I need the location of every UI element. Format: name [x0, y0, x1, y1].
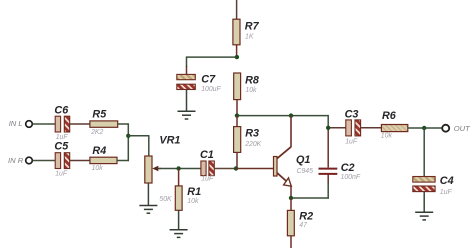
node junction wiper/R1/C1 — [176, 166, 180, 170]
terminal OUT — [442, 124, 471, 133]
svg-text:C4: C4 — [440, 175, 454, 187]
wire IN L to C6 — [33, 123, 56, 125]
svg-text:R1: R1 — [187, 186, 201, 198]
wire C1 to base junction — [214, 168, 236, 170]
terminal IN R — [8, 156, 32, 165]
resistor R5 — [90, 109, 118, 136]
node junction R7/R8/C7 — [235, 55, 239, 59]
svg-text:R7: R7 — [245, 21, 260, 33]
resistor R8 — [234, 73, 259, 116]
wire junction under R7 to C7 branch — [187, 56, 238, 67]
svg-text:IN R: IN R — [8, 156, 24, 165]
svg-text:47: 47 — [299, 222, 308, 229]
wire C6 to R5 — [70, 123, 91, 125]
svg-text:220K: 220K — [244, 141, 261, 148]
wire IN R to C5 — [33, 160, 56, 162]
resistor R6 — [381, 110, 408, 140]
potentiometer VR1 — [145, 135, 181, 204]
wire C3 branch — [328, 127, 346, 129]
ground under C7 — [178, 90, 196, 120]
node junction emitter/R2/C2 — [289, 196, 293, 200]
node junction R6/C4/OUT — [422, 126, 426, 130]
svg-text:R2: R2 — [299, 210, 313, 222]
capacitor C7 pin — [186, 66, 188, 75]
node junction R8/R3/rail — [235, 113, 239, 117]
svg-text:C3: C3 — [345, 109, 359, 121]
svg-text:100nF: 100nF — [341, 174, 361, 181]
resistor R2 — [287, 198, 313, 248]
svg-text:1K: 1K — [245, 34, 254, 41]
wire R6 to OUT — [408, 127, 442, 129]
resistor R1 — [175, 169, 201, 211]
svg-text:10k: 10k — [245, 87, 257, 94]
resistor R3 — [234, 116, 262, 169]
capacitor C4 — [413, 175, 454, 196]
svg-text:1uF: 1uF — [345, 139, 358, 146]
capacitor C2 — [319, 156, 361, 181]
svg-text:2K2: 2K2 — [90, 129, 103, 136]
svg-text:50K: 50K — [159, 196, 172, 203]
wire junction to VR1 top — [128, 135, 149, 156]
capacitor C5 — [54, 141, 69, 178]
capacitor C1 — [200, 149, 214, 183]
ground under R1 — [170, 210, 188, 237]
wire C3 to R6 — [361, 127, 382, 129]
terminal IN L — [9, 119, 33, 128]
svg-text:10k: 10k — [381, 133, 393, 140]
svg-text:1uF: 1uF — [55, 170, 68, 177]
node junction rail/C3 — [326, 126, 330, 130]
node junction C1/R3/base — [234, 166, 238, 170]
wire VR1 wiper to C1 — [159, 168, 201, 170]
svg-text:C2: C2 — [341, 162, 355, 174]
svg-text:1uF: 1uF — [201, 176, 214, 183]
svg-text:OUT: OUT — [454, 124, 471, 133]
capacitor C7 — [177, 73, 222, 93]
svg-text:C7: C7 — [201, 73, 216, 85]
svg-text:IN L: IN L — [9, 119, 23, 128]
svg-text:10k: 10k — [92, 165, 104, 172]
svg-text:C1: C1 — [200, 149, 214, 161]
svg-text:C945: C945 — [297, 168, 314, 175]
svg-text:R6: R6 — [382, 110, 397, 122]
wire collector rail — [237, 115, 329, 157]
svg-text:R4: R4 — [92, 145, 106, 157]
svg-text:1uF: 1uF — [440, 189, 453, 196]
node junction R5/R4/VR1 — [126, 134, 130, 138]
wire C5 to R4 — [70, 160, 91, 162]
svg-text:R8: R8 — [245, 75, 259, 87]
wire C4 branch — [423, 128, 425, 177]
resistor R7 — [233, 19, 260, 57]
ground under VR1 — [139, 183, 157, 213]
svg-text:VR1: VR1 — [159, 135, 180, 147]
capacitor C3 — [345, 109, 361, 146]
wire base pin — [236, 168, 274, 170]
svg-text:C6: C6 — [54, 105, 69, 117]
svg-text:R5: R5 — [92, 109, 107, 121]
ground under C4 — [415, 192, 433, 220]
node junction collector/rail — [289, 113, 293, 117]
transistor Q1 — [274, 116, 314, 198]
svg-text:C5: C5 — [54, 141, 69, 153]
wire emitter to C2 bottom — [290, 175, 329, 199]
svg-text:R3: R3 — [245, 127, 259, 139]
resistor R4 — [90, 145, 117, 172]
wire R5/R4 mix node — [117, 123, 129, 161]
capacitor C6 — [54, 105, 69, 142]
wire V+ rail to R7 top — [236, 0, 238, 20]
svg-text:Q1: Q1 — [296, 154, 310, 166]
svg-text:10k: 10k — [187, 198, 199, 205]
svg-text:100uF: 100uF — [201, 86, 221, 93]
